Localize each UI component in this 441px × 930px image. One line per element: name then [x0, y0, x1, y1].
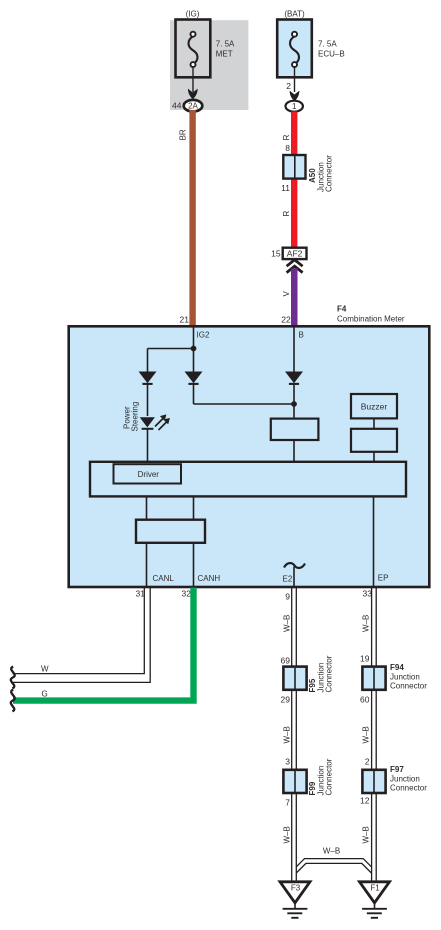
svg-text:15: 15	[271, 248, 281, 258]
svg-text:Junction: Junction	[390, 775, 420, 784]
svg-text:CANH: CANH	[198, 574, 221, 583]
svg-text:7. 5A: 7. 5A	[318, 40, 337, 49]
svg-text:W–B: W–B	[361, 726, 370, 743]
svg-text:21: 21	[180, 315, 190, 325]
svg-text:W–B: W–B	[283, 726, 292, 743]
svg-text:W–B: W–B	[283, 826, 292, 843]
svg-text:Connector: Connector	[325, 655, 334, 692]
svg-text:Junction: Junction	[390, 673, 420, 682]
svg-text:W–B: W–B	[361, 826, 370, 843]
svg-text:W–B: W–B	[283, 615, 292, 632]
svg-text:29: 29	[281, 694, 291, 704]
svg-text:F94: F94	[390, 663, 404, 672]
svg-text:BR: BR	[179, 129, 188, 140]
svg-text:7. 5A: 7. 5A	[216, 40, 235, 49]
svg-text:11: 11	[281, 183, 290, 193]
svg-text:R: R	[282, 211, 291, 217]
svg-text:W: W	[41, 664, 49, 673]
svg-text:Buzzer: Buzzer	[361, 401, 388, 411]
svg-text:W–B: W–B	[361, 615, 370, 632]
svg-text:IG2: IG2	[197, 331, 210, 340]
svg-text:Steering: Steering	[130, 402, 139, 432]
svg-text:Connector: Connector	[390, 681, 427, 690]
svg-text:22: 22	[281, 315, 291, 325]
svg-text:F1: F1	[370, 884, 380, 893]
svg-text:60: 60	[360, 694, 370, 704]
svg-text:MET: MET	[216, 50, 233, 59]
svg-text:2A: 2A	[188, 102, 198, 111]
svg-text:W–B: W–B	[323, 847, 340, 856]
svg-text:Driver: Driver	[138, 470, 160, 479]
svg-text:F3: F3	[291, 884, 301, 893]
svg-text:2: 2	[286, 81, 291, 91]
svg-text:F97: F97	[390, 765, 404, 774]
svg-text:7: 7	[285, 797, 290, 807]
svg-text:8: 8	[285, 143, 290, 153]
svg-text:1: 1	[292, 102, 297, 111]
svg-text:Combination Meter: Combination Meter	[337, 315, 405, 324]
svg-text:Connector: Connector	[390, 783, 427, 792]
svg-text:32: 32	[182, 589, 192, 599]
svg-text:ECU–B: ECU–B	[318, 50, 345, 59]
svg-text:R: R	[282, 134, 291, 140]
svg-text:F4: F4	[337, 305, 347, 314]
svg-text:G: G	[42, 689, 48, 698]
svg-text:2: 2	[365, 756, 370, 766]
svg-text:(IG): (IG)	[186, 10, 200, 19]
svg-text:33: 33	[363, 589, 373, 599]
svg-text:Connector: Connector	[325, 155, 334, 192]
svg-text:EP: EP	[378, 574, 389, 583]
svg-text:19: 19	[360, 653, 370, 663]
svg-text:9: 9	[285, 592, 290, 602]
svg-text:Connector: Connector	[325, 758, 334, 795]
svg-text:(BAT): (BAT)	[284, 10, 305, 19]
svg-text:E2: E2	[283, 575, 293, 584]
svg-text:69: 69	[281, 656, 291, 666]
svg-text:V: V	[282, 291, 291, 297]
svg-text:12: 12	[360, 795, 370, 805]
svg-text:44: 44	[172, 100, 182, 110]
svg-text:B: B	[299, 331, 304, 340]
svg-text:CANL: CANL	[153, 574, 175, 583]
svg-text:AF2: AF2	[287, 248, 303, 258]
svg-text:3: 3	[285, 757, 290, 767]
